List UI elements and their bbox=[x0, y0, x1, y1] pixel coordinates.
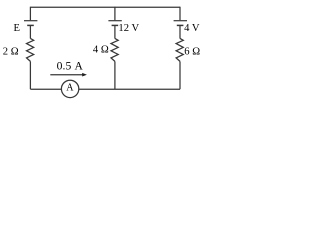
svg-text:2 Ω: 2 Ω bbox=[3, 47, 19, 58]
svg-text:E: E bbox=[14, 23, 20, 34]
svg-text:12 V: 12 V bbox=[118, 23, 139, 34]
svg-text:4 Ω: 4 Ω bbox=[93, 45, 109, 56]
svg-text:A: A bbox=[66, 83, 74, 94]
svg-text:6 Ω: 6 Ω bbox=[184, 46, 200, 57]
svg-text:4 V: 4 V bbox=[184, 23, 200, 34]
svg-text:0.5 A: 0.5 A bbox=[57, 60, 84, 73]
